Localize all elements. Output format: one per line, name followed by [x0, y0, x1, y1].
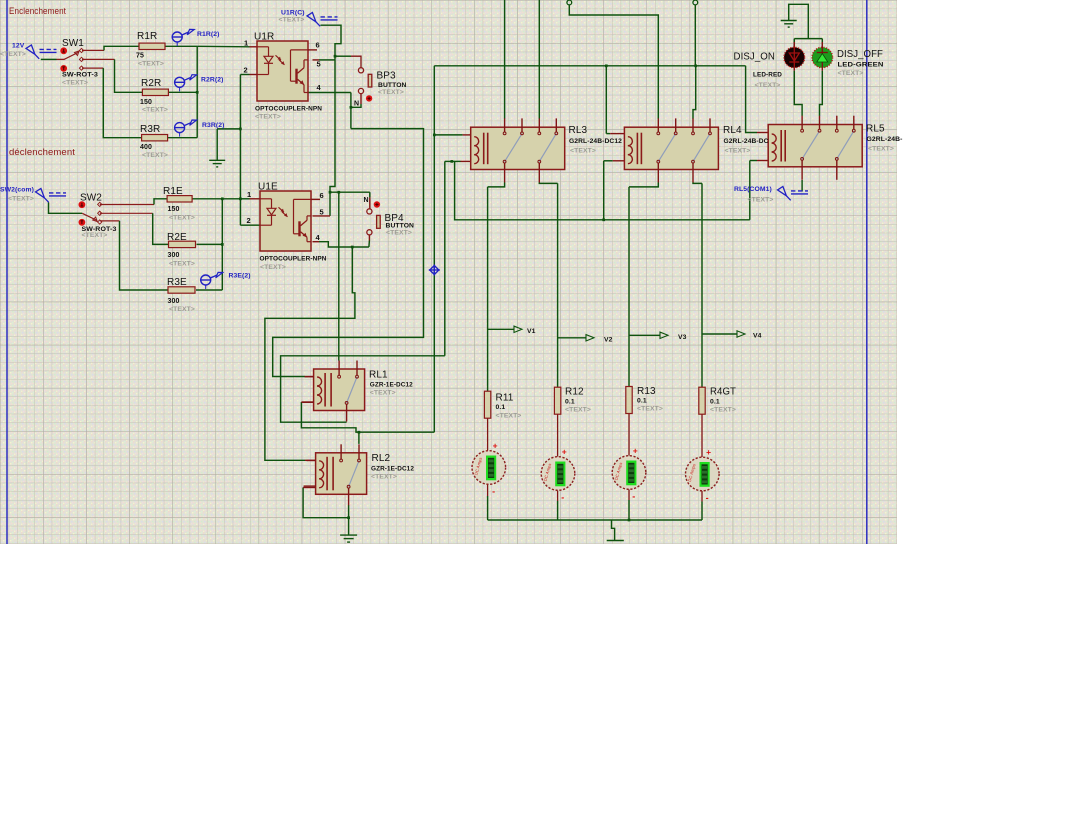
svg-text:LED-RED: LED-RED — [753, 72, 782, 79]
svg-text:150: 150 — [140, 99, 152, 106]
svg-text:R3R(2): R3R(2) — [202, 122, 225, 129]
svg-text:<TEXT>: <TEXT> — [725, 148, 751, 155]
svg-text:-: - — [632, 492, 635, 502]
svg-text:R1R: R1R — [137, 31, 157, 42]
svg-text:<TEXT>: <TEXT> — [710, 407, 736, 414]
svg-text:DISJ_ON: DISJ_ON — [734, 52, 776, 63]
svg-text:<TEXT>: <TEXT> — [260, 264, 286, 271]
svg-text:G2RL-24B-: G2RL-24B- — [867, 136, 903, 143]
svg-text:BP3: BP3 — [377, 71, 397, 82]
svg-text:<TEXT>: <TEXT> — [565, 407, 591, 414]
svg-text:SW-ROT-3: SW-ROT-3 — [82, 226, 117, 233]
svg-text:G2RL-24B-DC: G2RL-24B-DC — [724, 138, 769, 145]
svg-text:<TEXT>: <TEXT> — [637, 406, 663, 413]
svg-text:150: 150 — [168, 206, 180, 213]
svg-text:<TEXT>: <TEXT> — [371, 474, 397, 481]
svg-text:DISJ_OFF: DISJ_OFF — [837, 49, 883, 60]
svg-text:+: + — [562, 447, 567, 457]
svg-text:OPTOCOUPLER-NPN: OPTOCOUPLER-NPN — [255, 106, 322, 113]
svg-text:<TEXT>: <TEXT> — [138, 61, 164, 68]
svg-text:SW2(com): SW2(com) — [0, 187, 34, 194]
svg-text:U1R(C): U1R(C) — [281, 10, 305, 17]
svg-text:<TEXT>: <TEXT> — [279, 17, 305, 24]
svg-text:R2R: R2R — [141, 78, 161, 89]
svg-text:5: 5 — [317, 60, 321, 69]
svg-text:<TEXT>: <TEXT> — [255, 114, 281, 121]
svg-text:4: 4 — [316, 233, 321, 242]
svg-text:1: 1 — [247, 190, 251, 199]
svg-text:R1R(2): R1R(2) — [197, 31, 220, 38]
svg-text:V2: V2 — [604, 336, 613, 343]
svg-text:GZR-1E-DC12: GZR-1E-DC12 — [370, 382, 413, 389]
svg-text:<TEXT>: <TEXT> — [62, 80, 88, 87]
svg-text:<TEXT>: <TEXT> — [8, 196, 34, 203]
svg-text:RL5(COM1): RL5(COM1) — [734, 186, 772, 193]
svg-text:75: 75 — [136, 53, 144, 60]
svg-text:<TEXT>: <TEXT> — [838, 70, 864, 77]
svg-text:0.1: 0.1 — [565, 399, 575, 406]
svg-text:SW-ROT-3: SW-ROT-3 — [62, 72, 98, 79]
svg-text:SW2: SW2 — [80, 193, 102, 204]
svg-text:R12: R12 — [565, 387, 584, 398]
svg-text:<TEXT>: <TEXT> — [169, 215, 195, 222]
svg-text:BUTTON: BUTTON — [386, 223, 415, 230]
svg-text:<TEXT>: <TEXT> — [142, 152, 168, 159]
svg-text:-: - — [561, 493, 564, 503]
svg-text:V1: V1 — [527, 328, 536, 335]
svg-text:-: - — [492, 487, 495, 497]
svg-text:V4: V4 — [753, 333, 762, 340]
svg-text:<TEXT>: <TEXT> — [142, 107, 168, 114]
svg-text:-: - — [706, 493, 709, 503]
svg-text:RL1: RL1 — [369, 370, 388, 381]
svg-text:<TEXT>: <TEXT> — [169, 261, 195, 268]
svg-text:<TEXT>: <TEXT> — [370, 390, 396, 397]
svg-text:400: 400 — [140, 144, 152, 151]
svg-text:R4GT: R4GT — [710, 387, 736, 398]
svg-text:Enclenchement: Enclenchement — [9, 6, 66, 16]
svg-text:R2R(2): R2R(2) — [201, 77, 224, 84]
svg-text:U1R: U1R — [254, 32, 274, 43]
svg-text:2: 2 — [244, 66, 248, 75]
svg-text:RL4: RL4 — [723, 125, 742, 136]
svg-text:0.1: 0.1 — [637, 398, 647, 405]
svg-text:R11: R11 — [496, 393, 514, 404]
svg-text:G2RL-24B-DC12: G2RL-24B-DC12 — [569, 138, 622, 145]
svg-text:R3R: R3R — [140, 124, 160, 135]
svg-text:<TEXT>: <TEXT> — [386, 230, 412, 237]
svg-text:300: 300 — [168, 252, 180, 259]
svg-text:0.1: 0.1 — [710, 399, 720, 406]
svg-text:<TEXT>: <TEXT> — [0, 51, 26, 58]
svg-text:OPTOCOUPLER-NPN: OPTOCOUPLER-NPN — [260, 256, 327, 263]
svg-text:<TEXT>: <TEXT> — [570, 148, 596, 155]
svg-text:+: + — [493, 441, 498, 451]
svg-text:RL2: RL2 — [372, 453, 391, 464]
svg-text:0.1: 0.1 — [496, 404, 506, 411]
svg-text:<TEXT>: <TEXT> — [169, 306, 195, 313]
svg-text:N: N — [364, 197, 369, 204]
svg-text:R13: R13 — [637, 386, 656, 397]
svg-text:<TEXT>: <TEXT> — [755, 82, 781, 89]
svg-text:déclenchement: déclenchement — [9, 147, 75, 157]
svg-text:6: 6 — [316, 41, 320, 50]
svg-text:RL3: RL3 — [569, 125, 588, 136]
svg-text:4: 4 — [317, 83, 322, 92]
svg-text:V3: V3 — [678, 334, 687, 341]
svg-text:2: 2 — [247, 216, 251, 225]
svg-text:+: + — [633, 446, 638, 456]
svg-text:GZR-1E-DC12: GZR-1E-DC12 — [371, 466, 414, 473]
svg-text:U1E: U1E — [258, 182, 278, 193]
svg-text:<TEXT>: <TEXT> — [748, 197, 774, 204]
svg-text:R2E: R2E — [167, 232, 187, 243]
svg-text:<TEXT>: <TEXT> — [496, 413, 522, 420]
svg-text:R3E(2): R3E(2) — [229, 273, 251, 280]
svg-text:300: 300 — [168, 298, 180, 305]
svg-text:<TEXT>: <TEXT> — [82, 232, 108, 239]
svg-text:6: 6 — [320, 191, 324, 200]
svg-text:R3E: R3E — [167, 277, 187, 288]
svg-text:R1E: R1E — [163, 186, 183, 197]
svg-text:BUTTON: BUTTON — [378, 82, 407, 89]
svg-text:RL5: RL5 — [866, 124, 885, 135]
svg-text:LED-GREEN: LED-GREEN — [838, 62, 884, 69]
svg-text:1: 1 — [244, 39, 248, 48]
svg-text:+: + — [706, 447, 711, 457]
svg-text:SW1: SW1 — [62, 38, 84, 49]
svg-text:5: 5 — [320, 208, 324, 217]
svg-text:N: N — [354, 101, 359, 108]
svg-text:<TEXT>: <TEXT> — [868, 146, 894, 153]
svg-text:<TEXT>: <TEXT> — [378, 89, 404, 96]
svg-text:12V: 12V — [12, 43, 25, 50]
